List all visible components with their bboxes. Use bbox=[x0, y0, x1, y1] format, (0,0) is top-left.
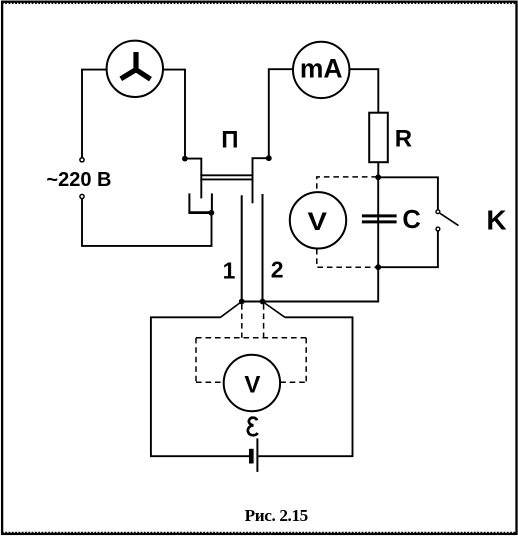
dashed wire plate 2 to screened box bbox=[263, 304, 265, 338]
dashed wire voltmeter PV1 bottom bbox=[317, 249, 377, 267]
wire resistor to node D bbox=[377, 162, 379, 177]
svg-text:П: П bbox=[221, 126, 238, 153]
wire from lower supply terminal to cathode bracket bbox=[82, 199, 212, 246]
cathode bracket bbox=[188, 193, 213, 212]
dashed wire voltmeter PV1 top bbox=[317, 177, 377, 192]
milliammeter PA1 bbox=[293, 42, 349, 98]
wire plate 2 diagonal to box bbox=[263, 302, 285, 318]
svg-text:K: K bbox=[486, 205, 506, 236]
wire node D to switch K bbox=[378, 177, 438, 209]
screened box (dashed) around lower voltmeter bbox=[196, 338, 306, 382]
svg-text:mA: mA bbox=[300, 54, 343, 84]
wire node A to left heater lead bbox=[185, 159, 201, 199]
wire from autotransformer left to upper supply terminal bbox=[82, 70, 107, 158]
svg-text:1: 1 bbox=[223, 258, 236, 284]
dashed wire plate 1 to screened box bbox=[241, 304, 243, 338]
node B (right heater junction dot) bbox=[266, 155, 272, 161]
resistor R bbox=[369, 113, 388, 163]
node G (plate 2 bottom dot) bbox=[260, 299, 266, 305]
wire plate 1 diagonal to box bbox=[221, 302, 242, 318]
svg-text:2: 2 bbox=[271, 257, 284, 283]
svg-text:C: C bbox=[402, 206, 420, 234]
voltmeter PV2 (lower) bbox=[224, 355, 280, 411]
node A (left heater junction dot) bbox=[182, 156, 188, 162]
capacitor C bbox=[362, 216, 397, 222]
voltmeter PV1 (upper) bbox=[290, 192, 346, 248]
svg-text:V: V bbox=[244, 371, 260, 398]
electrode plate 2 bbox=[262, 194, 264, 302]
lower enclosure box bbox=[151, 317, 353, 456]
terminal lower (~220 V) bbox=[80, 194, 84, 198]
node F (plate 1 bottom dot) bbox=[239, 299, 245, 305]
terminal upper (~220 V) bbox=[80, 158, 84, 162]
node C (bracket output dot) bbox=[209, 210, 215, 216]
wire from autotransformer right down to node A bbox=[163, 70, 185, 159]
wire node B up to milliammeter bbox=[269, 69, 293, 158]
wire node D through capacitor down to plates bbox=[242, 177, 379, 301]
autotransformer T1 (circle with three-spoke symbol) bbox=[107, 41, 163, 97]
battery EMF source bbox=[251, 438, 257, 472]
wire milliammeter to resistor R bbox=[350, 69, 379, 113]
svg-text:Рис. 2.15: Рис. 2.15 bbox=[245, 506, 308, 525]
furnace П heater double line bbox=[200, 175, 253, 179]
svg-text:R: R bbox=[395, 126, 412, 153]
svg-text:V: V bbox=[308, 208, 328, 236]
svg-text:~220 В: ~220 В bbox=[46, 169, 111, 191]
wire switch K to node E bbox=[378, 231, 438, 267]
label EMF epsilon bbox=[248, 418, 258, 436]
electrode plate 1 bbox=[241, 195, 243, 301]
node D (top of capacitor) bbox=[375, 174, 381, 180]
wire node B to right heater lead bbox=[253, 158, 269, 203]
switch K bbox=[436, 210, 459, 231]
node E (bottom of capacitor) bbox=[375, 264, 381, 270]
